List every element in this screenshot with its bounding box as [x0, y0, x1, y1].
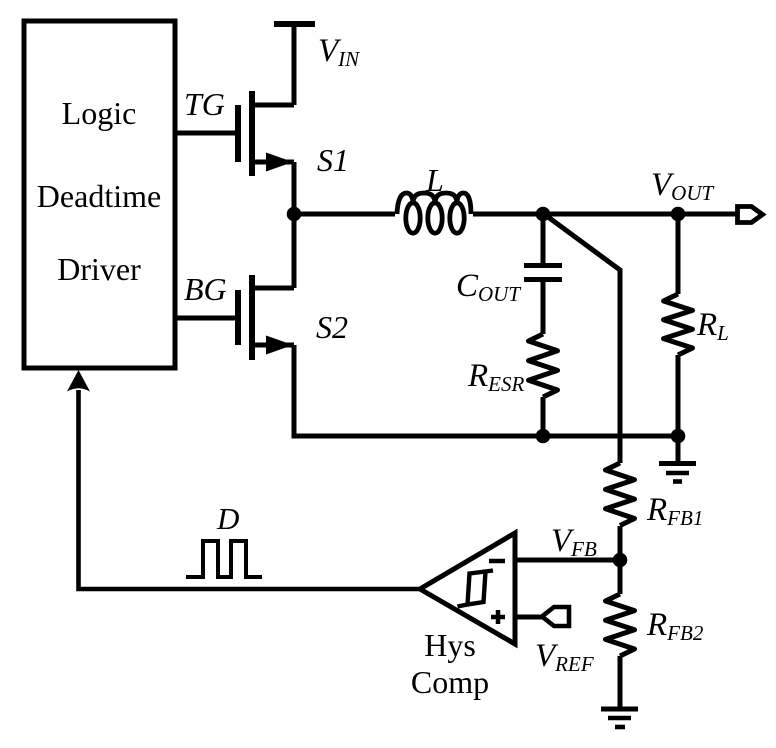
svg-text:TG: TG — [184, 86, 225, 122]
svg-text:RFB2: RFB2 — [646, 607, 704, 645]
inductor L — [397, 193, 471, 233]
svg-text:COUT: COUT — [456, 268, 521, 306]
resistor RL — [664, 294, 693, 355]
wire plus input to VREF terminal — [515, 615, 542, 620]
resistor RFB1 — [606, 463, 635, 526]
wire RESR to rail — [541, 397, 546, 436]
node RL rail junction dot — [671, 429, 686, 444]
svg-text:Hys: Hys — [424, 627, 476, 663]
svg-text:BG: BG — [184, 271, 227, 307]
svg-text:VFB: VFB — [551, 523, 597, 561]
wire feedback tap diagonal — [544, 214, 620, 463]
svg-text:RL: RL — [696, 307, 729, 345]
transistor M2 bottom switch — [238, 275, 294, 360]
svg-text:Logic: Logic — [62, 95, 137, 131]
svg-text:Comp: Comp — [411, 664, 489, 700]
ground under RFB2 — [601, 709, 638, 727]
wire VOUT down to RL — [676, 214, 681, 294]
ground under RL — [659, 436, 696, 482]
block U1 Logic Deadtime Driver — [24, 21, 175, 368]
hysteresis symbol — [458, 571, 494, 607]
wire switch node vertical — [292, 162, 297, 288]
wire inductor to VOUT node — [473, 212, 736, 217]
power VIN bar — [274, 21, 315, 27]
resistor RESR — [529, 334, 558, 397]
svg-text:VIN: VIN — [318, 33, 360, 71]
node SW junction dot — [287, 207, 302, 222]
transistor M1 top switch — [238, 91, 294, 176]
terminal VREF input pin — [542, 607, 569, 626]
svg-text:S1: S1 — [317, 142, 349, 178]
wire SW to inductor — [294, 212, 395, 217]
pin plus — [491, 610, 505, 624]
waveform D pulses — [186, 541, 262, 577]
node VFB junction dot — [613, 553, 628, 568]
op-amp U2 hysteretic comparator — [420, 533, 515, 644]
svg-text:Driver: Driver — [57, 251, 141, 287]
svg-text:RESR: RESR — [467, 358, 524, 396]
svg-text:RFB1: RFB1 — [646, 492, 703, 530]
wire M1 drain to VIN — [292, 22, 297, 105]
wire VOUT node to COUT — [541, 214, 546, 263]
node VOUT junction dot — [671, 207, 686, 222]
node RESR rail junction dot — [536, 429, 551, 444]
arrow feedback into block — [67, 370, 90, 392]
svg-text:D: D — [216, 501, 239, 536]
wire RL to rail — [676, 355, 681, 436]
svg-text:Deadtime: Deadtime — [37, 178, 161, 214]
svg-text:L: L — [425, 162, 444, 198]
node COUT junction dot — [536, 207, 551, 222]
wire RFB2 to ground — [618, 656, 623, 709]
wire COUT to RESR — [541, 282, 546, 334]
terminal VOUT output pin — [738, 207, 763, 223]
wire BG gate lead — [175, 316, 238, 321]
wire TG gate lead — [175, 131, 238, 136]
pin minus — [489, 559, 505, 564]
wire M2 source down to ground rail — [294, 345, 678, 436]
svg-text:VREF: VREF — [535, 638, 594, 676]
wire VFB to comparator — [515, 558, 620, 563]
wire comparator output feedback — [79, 390, 421, 589]
capacitor COUT — [524, 266, 562, 280]
resistor RFB2 — [606, 594, 635, 656]
svg-text:S2: S2 — [316, 309, 348, 345]
wire RFB1 to VFB node — [618, 526, 623, 594]
svg-text:VOUT: VOUT — [651, 167, 715, 205]
